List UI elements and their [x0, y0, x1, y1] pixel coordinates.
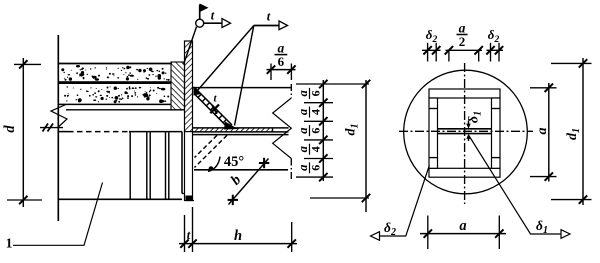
delta2 leader arrowhead — [371, 232, 380, 241]
right member top line — [193, 87, 292, 89]
tick X on bar — [210, 105, 219, 114]
box column right wall — [492, 98, 501, 168]
dimension d1 left figure: ticks — [362, 80, 370, 88]
dimension h: tick right — [288, 239, 296, 247]
svg-text:t: t — [267, 10, 271, 24]
bottom a dim: ticks — [424, 229, 432, 237]
detail circle — [404, 70, 528, 194]
right d1 dim: line — [582, 58, 584, 205]
end plate lower part — [185, 132, 193, 201]
bottom a dim: extension lines — [427, 216, 429, 250]
chain label a/4 segment 4 — [296, 144, 323, 155]
gusset plate bottom line — [193, 131, 289, 133]
45 degree arc — [208, 157, 220, 172]
dimension t: ticks — [180, 239, 188, 247]
box column left wall — [429, 98, 438, 168]
right member bottom line — [194, 169, 288, 171]
dimension chain extension row y84 — [296, 83, 369, 85]
slab band 2 (precast concrete, stippled) — [64, 86, 169, 103]
delta1 thickness arrows — [468, 121, 470, 127]
wall axis break symbol — [40, 127, 63, 129]
delta1 leader — [469, 135, 562, 234]
svg-text:6: 6 — [309, 165, 323, 171]
weld symbol 1: flag stem — [199, 5, 201, 20]
line under gusset — [193, 134, 289, 136]
diagonal stiffener bar (ladder hatched) — [194, 87, 232, 127]
svg-text:h: h — [234, 228, 242, 244]
right a dim: line — [548, 83, 550, 182]
gusset plate hatch — [194, 128, 273, 131]
dimension t: extension lines — [184, 215, 186, 252]
delta1 leader arrowhead — [561, 230, 570, 239]
weld symbol 2: leader to gusset weld — [235, 26, 254, 126]
dimension b line — [229, 159, 269, 205]
joint block (grout, hatched) — [171, 62, 185, 110]
dimension a/6 top: extension lines — [270, 64, 272, 81]
dimension d1 left figure: label — [344, 124, 361, 136]
box column top plate — [429, 89, 500, 98]
weld blob at bar top (plate junction) — [194, 87, 202, 96]
right a dim: ticks — [545, 84, 553, 92]
dimension chain extension row y121.3 — [304, 120, 333, 122]
chain label a/6 segment 3 — [296, 125, 323, 136]
weld symbol 1: circle — [196, 19, 204, 27]
weld symbol 2: leader to bar — [198, 26, 254, 91]
wall line — [57, 35, 59, 221]
dimension chain extension row y158.5 — [304, 158, 333, 160]
top dims: extension lines — [427, 43, 429, 62]
right d1 dim: ticks — [579, 59, 587, 67]
weld blob at bar bottom (gusset junction) — [224, 122, 238, 130]
svg-text:6: 6 — [309, 128, 323, 134]
slab divider (topping line, thick) — [59, 81, 171, 84]
beam stiffener line 1 — [129, 132, 131, 199]
svg-text:a: a — [535, 128, 550, 135]
zigzag break in wall — [51, 104, 67, 127]
chain label a/6 segment 5 — [296, 162, 323, 173]
beam top line (partly dashed) — [58, 131, 68, 133]
right d1 dim: label — [565, 128, 582, 140]
dimension d: extension top — [14, 63, 41, 65]
dimension d: line — [22, 58, 24, 207]
hidden stiffener dashed line 2 — [195, 135, 218, 157]
svg-text:d: d — [2, 125, 18, 133]
svg-text:6: 6 — [278, 54, 285, 69]
dimension chain extension row y139.9 — [304, 139, 333, 141]
beam stiffener line 2 — [146, 132, 148, 199]
diaphragm plate delta1 — [438, 128, 492, 130]
extension row y198 (beam bottom) — [310, 197, 369, 199]
weld symbol 1: open triangle — [222, 19, 231, 28]
dimension chain extension row y177 — [296, 176, 333, 178]
ledge line under slab — [66, 109, 185, 111]
gusset hatch end tick — [272, 128, 274, 132]
dimension chain ticks — [319, 80, 327, 88]
beam end line — [181, 132, 183, 194]
zigzag break right member — [273, 98, 292, 159]
svg-text:45°: 45° — [224, 154, 245, 170]
slab band 1 (precast concrete, stippled) — [59, 65, 170, 82]
dimension h: extension right — [291, 222, 293, 252]
svg-text:2: 2 — [459, 34, 466, 49]
svg-text:a: a — [459, 218, 466, 234]
svg-text:1: 1 — [6, 236, 13, 251]
dimension d: ticks — [19, 60, 27, 68]
beam end step — [182, 194, 194, 201]
weld symbol 1: flag — [200, 4, 209, 13]
box column bottom plate — [429, 168, 500, 177]
hidden stiffener dashed line 1 — [195, 135, 228, 167]
weld symbol 2: open triangle — [279, 21, 288, 30]
weld symbol 1: leader — [184, 27, 197, 65]
dimension chain extension row y102.7 — [304, 102, 333, 104]
leader 1 line — [13, 183, 103, 246]
beam bottom line — [58, 198, 182, 200]
top dims: line segments — [422, 49, 441, 51]
svg-text:4: 4 — [309, 146, 323, 152]
dimension chain vertical line — [322, 80, 324, 181]
dimension a/6 top: line — [267, 69, 296, 71]
dimension b tick lower — [228, 195, 238, 205]
svg-text:t: t — [187, 228, 191, 242]
beam stiffener line 5 — [168, 132, 170, 199]
right a dim: extension lines — [530, 87, 557, 89]
break line dash-dot top — [290, 84, 292, 98]
beam stiffener line 3 — [149, 132, 151, 199]
delta1 center label (rotated) — [467, 111, 484, 123]
weld symbol 1: reference line — [204, 22, 222, 24]
beam stiffener line 4 — [165, 132, 167, 199]
dimension t+h: line — [179, 243, 297, 245]
right d1 dim: extension lines — [551, 62, 592, 64]
top dims: ticks — [423, 46, 431, 54]
dimension b tick upper — [259, 158, 269, 168]
end plate (hatched, thickness t) — [185, 41, 193, 132]
break line dash-dot bottom — [290, 159, 292, 181]
chain label a/4 segment 2 — [296, 107, 323, 118]
end plate foot (dark) — [186, 196, 194, 201]
delta2 leader — [380, 166, 430, 237]
horizontal centerline — [399, 130, 533, 132]
dimension d: extension bottom — [7, 199, 42, 201]
bottom a dim: line — [420, 233, 506, 235]
chain label a/6 segment 1 — [296, 88, 323, 99]
dimension a/6 top: ticks — [267, 65, 275, 73]
vertical centerline — [464, 63, 466, 204]
dimension d1 left figure: line — [365, 80, 367, 212]
slab top line — [58, 63, 172, 65]
svg-text:t: t — [211, 9, 215, 23]
dimension d: label — [2, 125, 18, 133]
right a dim: label — [535, 128, 550, 135]
svg-text:4: 4 — [309, 109, 323, 115]
svg-text:6: 6 — [309, 90, 323, 96]
gusset plate top line — [193, 127, 289, 129]
slab bottom line — [58, 103, 171, 105]
weld symbol 2: reference line — [254, 25, 279, 27]
45 degree arc dot — [209, 166, 214, 171]
